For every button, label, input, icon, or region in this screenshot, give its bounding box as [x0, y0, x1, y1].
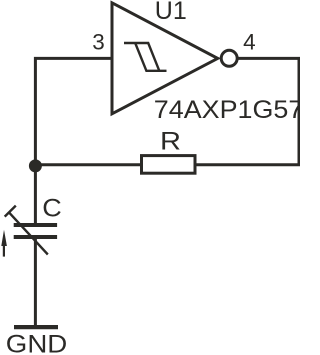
svg-text:C: C — [42, 194, 61, 222]
svg-text:GND: GND — [6, 331, 67, 355]
svg-text:74AXP1G57: 74AXP1G57 — [154, 96, 300, 124]
svg-text:3: 3 — [92, 30, 105, 55]
svg-text:R: R — [160, 127, 181, 155]
svg-text:U1: U1 — [155, 0, 187, 25]
svg-text:4: 4 — [243, 30, 256, 55]
